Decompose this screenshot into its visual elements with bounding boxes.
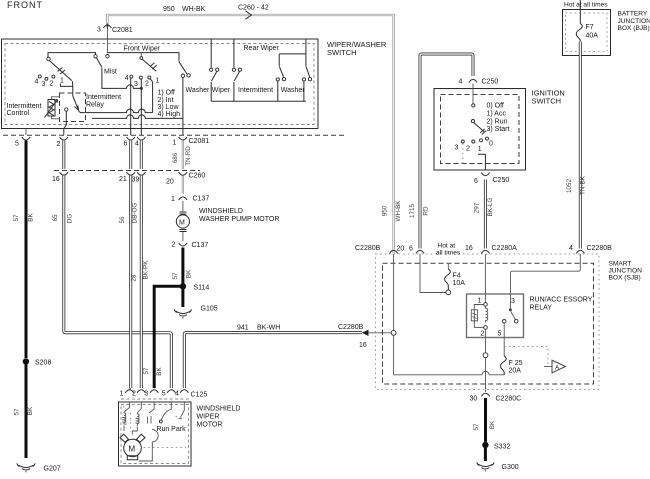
svg-text:57: 57 — [13, 214, 20, 222]
svg-text:4: 4 — [175, 390, 179, 397]
hop over ground wire on F25 horizontal — [482, 371, 489, 374]
svg-text:56: 56 — [119, 216, 126, 224]
wire contact2 down to relay output line — [150, 79, 153, 113]
svg-text:30: 30 — [470, 396, 478, 403]
svg-text:Washer: Washer — [281, 87, 306, 94]
wire 57 BK SJB to S332 (thick) — [484, 398, 487, 442]
front washer switch arm — [179, 62, 187, 74]
splice S208 — [23, 358, 29, 364]
svg-text:S332: S332 — [494, 444, 510, 451]
svg-text:6: 6 — [409, 246, 413, 253]
svg-text:2: 2 — [57, 141, 61, 148]
connector C250 pin 4 chevron — [469, 79, 477, 82]
svg-text:3: 3 — [455, 145, 459, 152]
C2081 pin 2 chevron — [60, 137, 68, 140]
svg-text:57: 57 — [473, 423, 480, 431]
svg-text:2: 2 — [481, 330, 485, 337]
connector C2280B pin16 arrowhead into SJB — [362, 330, 369, 336]
wire 57 BK pin5 to S208 (thick) — [25, 141, 28, 359]
rear washer left arm — [279, 67, 283, 78]
svg-text:MOTOR: MOTOR — [197, 422, 223, 429]
relay pin1 contact — [484, 303, 488, 307]
C125 pin 4 chevron — [180, 390, 188, 393]
park cam arc — [152, 430, 158, 442]
relay pin5 wire down to F25 — [503, 323, 505, 356]
wire park cam to motor — [139, 442, 153, 461]
svg-text:5: 5 — [15, 141, 19, 148]
svg-text:C2280A: C2280A — [492, 245, 518, 252]
svg-text:6: 6 — [474, 178, 478, 185]
svg-text:Intermittent: Intermittent — [86, 94, 121, 101]
svg-text:2: 2 — [466, 146, 470, 153]
svg-text:4: 4 — [459, 78, 463, 85]
svg-text:Run Park: Run Park — [156, 426, 186, 433]
off-page arrow A — [544, 366, 552, 368]
in-line connector C260-42 arrow on top wire — [246, 11, 252, 19]
svg-text:297: 297 — [474, 202, 481, 213]
svg-text:950: 950 — [382, 205, 389, 216]
battery junction box — [563, 10, 611, 56]
svg-text:S208: S208 — [35, 360, 51, 367]
svg-text:C2081: C2081 — [189, 138, 210, 145]
svg-text:2) Int: 2) Int — [158, 97, 174, 104]
wire coils to motor — [124, 426, 137, 435]
svg-text:6: 6 — [124, 141, 128, 148]
smart junction box inner dashed — [383, 263, 594, 384]
svg-text:all times: all times — [436, 249, 461, 256]
svg-text:C260: C260 — [189, 173, 206, 180]
in-line connector C2081 dashed line — [3, 134, 346, 136]
relay fixed contact circle — [65, 108, 68, 111]
ignition position contacts — [461, 140, 464, 143]
svg-text:SWITCH: SWITCH — [532, 97, 562, 106]
svg-text:57: 57 — [172, 272, 179, 280]
switch S2 pivot — [140, 57, 143, 60]
windshield wiper motor box — [119, 402, 192, 466]
svg-text:1: 1 — [156, 78, 160, 85]
wire arrowhead to internal node — [368, 332, 392, 334]
svg-text:4: 4 — [135, 141, 139, 148]
svg-text:C2081: C2081 — [112, 27, 133, 34]
wire rear intermittent out to bus — [233, 82, 235, 101]
C2081 pin 1 chevron — [179, 137, 187, 140]
wiper/washer switch inner dashed box — [5, 44, 314, 125]
BJB inner dotted box — [566, 13, 608, 52]
svg-text:4: 4 — [569, 245, 573, 252]
windshield washer pump motor symbol — [182, 201, 184, 212]
internal node circle (941/950/F25 junction) — [391, 330, 396, 335]
svg-text:3: 3 — [42, 81, 46, 88]
svg-text:16: 16 — [359, 342, 367, 349]
svg-text:4: 4 — [35, 78, 39, 85]
relay coil — [486, 306, 488, 322]
svg-text:21: 21 — [119, 176, 127, 183]
wiper motor breaker contacts — [149, 402, 154, 413]
relay pin3 contact dot — [509, 308, 512, 311]
wire 686 TN-RD washer pin1 to C260-20 — [182, 141, 184, 170]
ignition switch box — [434, 89, 526, 171]
svg-text:RD: RD — [423, 206, 430, 216]
relay coil left loop with marks — [474, 305, 483, 328]
relay armature arm — [511, 311, 516, 319]
svg-text:1: 1 — [478, 297, 482, 304]
svg-text:BK-PK: BK-PK — [143, 260, 150, 280]
connector circle on ground wire — [483, 353, 488, 358]
svg-text:FRONT: FRONT — [7, 0, 43, 10]
svg-text:G300: G300 — [502, 464, 519, 471]
wire 950 WH-BK top run from C2081-3 to corner x=393 — [107, 15, 393, 253]
svg-text:1) Off: 1) Off — [158, 90, 175, 97]
wire rear washer left out — [277, 81, 279, 101]
svg-text:BK: BK — [156, 367, 163, 376]
wire S114 branch to C125-3 (thick) — [154, 286, 183, 388]
svg-text:5: 5 — [498, 330, 502, 337]
connector C2081 pin 3 chevron — [103, 25, 111, 28]
wire rear wiper feed — [210, 40, 212, 68]
svg-text:3: 3 — [144, 390, 148, 397]
svg-text:1052: 1052 — [566, 179, 573, 194]
svg-text:0) Off: 0) Off — [487, 102, 504, 109]
SJB pin 4 chevron C2280B — [576, 250, 584, 253]
svg-text:DB-OG: DB-OG — [132, 203, 139, 224]
splice S114 — [180, 283, 186, 289]
svg-text:Washer: Washer — [186, 87, 211, 94]
svg-text:C250: C250 — [482, 79, 499, 86]
relay coil bottom lead — [52, 116, 60, 119]
svg-text:F4: F4 — [453, 273, 461, 280]
svg-text:RUN/ACC ESSORY: RUN/ACC ESSORY — [530, 297, 593, 304]
wire 1715 RD from SJB pin6 up and over to C250-4 — [420, 54, 473, 249]
intermittent relay dashed box — [60, 93, 86, 122]
svg-text:39: 39 — [132, 177, 140, 184]
svg-text:16: 16 — [465, 245, 473, 252]
front washer contacts — [181, 74, 184, 77]
svg-text:C137: C137 — [192, 242, 209, 249]
wire 941 BK-WH from C125-4 to SJB — [184, 333, 362, 388]
svg-text:F 25: F 25 — [509, 360, 523, 367]
svg-text:WH-BK: WH-BK — [182, 6, 206, 13]
motor bottom terminal — [127, 456, 137, 460]
switch S1 pivot circle — [47, 57, 50, 60]
switch S1 position-1 bracket to relay feed — [60, 84, 72, 87]
wire wash-wipe horizontal to washer wire — [92, 115, 183, 118]
svg-text:1: 1 — [171, 196, 175, 203]
ignition pivot contact — [471, 120, 474, 123]
svg-text:TN-RD: TN-RD — [185, 146, 192, 166]
ground G207 — [17, 463, 35, 472]
C260 pin 21 chevron — [127, 172, 135, 175]
SJB pin 20 chevron C2280B — [389, 250, 397, 253]
svg-text:C125: C125 — [191, 391, 208, 398]
svg-text:WH-BK: WH-BK — [395, 200, 402, 222]
wire C260-20 to C137-1 — [182, 176, 184, 195]
C2081 pin 5 chevron — [22, 137, 30, 140]
park contact stub from pin 4 — [181, 402, 185, 418]
wire contact4 down to pin 6 — [130, 78, 132, 135]
wiper motor M symbol — [124, 439, 142, 457]
wiper motor inner dashed box — [121, 405, 189, 464]
ground G300 — [477, 462, 494, 471]
wire 1052 TN-BK BJB to SJB pin4 — [579, 42, 582, 249]
wire contact3 down to pin 4 — [140, 79, 142, 135]
svg-text:C250: C250 — [493, 177, 510, 184]
svg-text:SWITCH: SWITCH — [327, 48, 357, 57]
svg-text:Wiper: Wiper — [212, 87, 231, 94]
SJB pin 30 chevron C2280C — [481, 393, 489, 396]
svg-text:Rear Wiper: Rear Wiper — [244, 45, 280, 52]
svg-text:3) Low: 3) Low — [158, 104, 180, 111]
svg-text:WIPER: WIPER — [197, 414, 220, 421]
svg-text:WASHER PUMP MOTOR: WASHER PUMP MOTOR — [199, 216, 279, 223]
svg-text:20: 20 — [166, 179, 174, 186]
SJB internal wire pin20 to node — [393, 254, 395, 330]
ignition feed contact — [472, 104, 475, 107]
svg-text:WINDSHIELD: WINDSHIELD — [199, 208, 243, 215]
switch S1 position contacts 4 3 2 — [38, 75, 41, 78]
svg-text:65: 65 — [52, 214, 59, 222]
wire 65 DG from pin2 to C260-16 — [62, 141, 65, 170]
svg-text:2: 2 — [145, 81, 149, 88]
ignition feed wire into box — [472, 84, 474, 104]
C260 pin 20 chevron — [179, 172, 187, 175]
svg-text:BK: BK — [489, 420, 496, 429]
svg-text:Intermittent: Intermittent — [7, 103, 42, 110]
svg-text:C2280C: C2280C — [496, 396, 522, 403]
junction dot mist/wire-28 — [140, 87, 143, 90]
svg-text:BK: BK — [186, 269, 193, 278]
svg-text:G105: G105 — [201, 306, 218, 313]
mist switch pivot circle — [94, 55, 97, 58]
C125 pin 3 chevron — [150, 390, 158, 393]
svg-text:C260 - 42: C260 - 42 — [238, 5, 269, 12]
ignition switch arm with arrowhead — [474, 123, 484, 132]
svg-text:1: 1 — [120, 390, 124, 397]
SJB pin 6 chevron — [416, 250, 424, 253]
svg-text:941: 941 — [237, 325, 249, 332]
svg-text:G207: G207 — [44, 466, 61, 473]
svg-text:4) High: 4) High — [158, 111, 181, 118]
relay coil rect with zigzag — [48, 100, 55, 117]
wire mist arm to wire-28 junction — [102, 68, 141, 88]
wiper motor coil B — [137, 402, 141, 413]
rear washer right arm — [306, 67, 310, 78]
svg-text:C2280B: C2280B — [338, 324, 364, 331]
svg-text:1: 1 — [478, 146, 482, 153]
fuse F7 40A — [576, 24, 582, 42]
BJB feed wire from top — [579, 0, 581, 24]
svg-text:C137: C137 — [193, 196, 210, 203]
switch S2 arm with arrowhead — [142, 59, 156, 71]
svg-text:M: M — [129, 445, 136, 454]
C125 pin 1 chevron — [125, 390, 133, 393]
svg-text:57: 57 — [143, 367, 150, 375]
rear washer feed and bracket — [279, 40, 306, 67]
svg-text:2: 2 — [50, 81, 54, 88]
connector C137 pin 1 chevron — [179, 197, 187, 200]
wire S208 to G207 (thick) — [25, 365, 28, 459]
svg-text:1715: 1715 — [409, 204, 416, 219]
svg-text:Hot at: Hot at — [438, 242, 456, 249]
rear wiper switch contacts — [210, 68, 213, 71]
wire relay output horizontal to contact2 wire — [81, 109, 153, 113]
in-line connector C260 dashed line — [54, 170, 200, 172]
wire relay armature feed — [71, 81, 73, 96]
svg-text:SMART: SMART — [609, 261, 632, 268]
C2081 pin 4 chevron — [137, 137, 145, 140]
mist switch arm — [97, 58, 102, 68]
svg-text:C2280B: C2280B — [587, 245, 613, 252]
svg-text:2: 2 — [132, 390, 136, 397]
motor internal dashed line — [144, 447, 187, 449]
relay pin2 contact — [484, 326, 488, 330]
svg-text:BK: BK — [27, 406, 34, 415]
C125 pin 2 chevron — [137, 390, 145, 393]
wire rear washer right out — [303, 81, 305, 101]
ignition output bracket — [478, 154, 485, 170]
wire 57 BK washer pump to S114 (thick) — [181, 248, 184, 286]
SJB internal wire node down to F25 horizontal — [394, 335, 505, 375]
wire rear intermittent feed — [233, 40, 235, 68]
rear washer right contacts — [302, 78, 305, 81]
svg-text:Relay: Relay — [86, 102, 104, 109]
svg-text:BOX (BJB): BOX (BJB) — [618, 25, 650, 32]
connector C125 dashed line — [121, 398, 191, 400]
rear section bottom bus — [211, 100, 306, 102]
svg-text:Front Wiper: Front Wiper — [124, 45, 161, 52]
relay armature arm with arrowhead — [73, 96, 79, 110]
svg-text:16: 16 — [52, 176, 60, 183]
svg-text:F7: F7 — [586, 24, 594, 31]
switch S2 contacts 4 3 2 1 — [130, 75, 133, 78]
park switch arm from pin 5 — [162, 402, 172, 420]
svg-text:1) Acc: 1) Acc — [487, 110, 507, 117]
connector C250 pin 6 chevron — [481, 173, 489, 176]
svg-text:28: 28 — [131, 274, 138, 282]
svg-text:950: 950 — [163, 6, 175, 13]
svg-text:3: 3 — [97, 27, 101, 34]
connector C137 pin 2 chevron — [179, 243, 187, 246]
svg-text:A: A — [555, 364, 560, 371]
fuse F4 10A — [447, 264, 449, 269]
svg-text:2: 2 — [172, 242, 176, 249]
svg-text:WINDSHIELD: WINDSHIELD — [197, 406, 241, 413]
svg-text:4: 4 — [125, 75, 129, 82]
svg-text:TN-BK: TN-BK — [580, 175, 587, 195]
svg-text:20A: 20A — [509, 368, 522, 375]
svg-text:BK-LG: BK-LG — [487, 197, 494, 216]
ignition start dashed stub — [462, 144, 464, 164]
C2081 pin 6 chevron — [127, 137, 135, 140]
svg-text:Intermittent: Intermittent — [238, 87, 273, 94]
wire S332 to G300 (thick) — [484, 448, 487, 461]
front wiper bus segment B — [108, 53, 179, 62]
run/accessory relay box — [467, 294, 524, 338]
svg-text:5: 5 — [162, 390, 166, 397]
svg-text:C2280B: C2280B — [355, 245, 381, 252]
svg-text:BATTERY: BATTERY — [618, 11, 648, 18]
smart junction box outer dashed — [376, 254, 600, 390]
svg-text:2) Run: 2) Run — [487, 119, 508, 126]
svg-text:M: M — [179, 220, 185, 227]
svg-text:1: 1 — [173, 140, 177, 147]
ground G105 — [174, 309, 191, 318]
svg-text:BOX (SJB): BOX (SJB) — [609, 275, 641, 282]
svg-text:0: 0 — [489, 140, 493, 147]
svg-text:10A: 10A — [453, 280, 466, 287]
svg-text:Hot at all times: Hot at all times — [564, 2, 608, 9]
splice S332 — [482, 442, 488, 448]
svg-text:S114: S114 — [194, 285, 210, 292]
svg-text:JUNCTION: JUNCTION — [618, 18, 650, 25]
wire 65 DG C260 to C125-5 — [64, 176, 172, 389]
dashed coil linkage — [124, 406, 131, 432]
rear washer left contacts — [276, 78, 279, 81]
C260 pin 16 chevron — [60, 172, 68, 175]
wire rear wiper out to bus — [210, 82, 212, 101]
relay coil adjust arrow — [45, 100, 58, 118]
wire 297 BK-LG C250-6 to SJB pin16 — [484, 180, 487, 249]
SJB internal wire pin6 to fuse F4 — [420, 254, 446, 293]
svg-text:DG: DG — [67, 214, 74, 224]
svg-text:3: 3 — [134, 81, 138, 88]
switch S1 arm with arrowhead — [50, 61, 72, 81]
wiper/washer switch outer box — [2, 39, 319, 129]
svg-text:Mist: Mist — [104, 69, 117, 76]
wire 56 DB-OG C2081-6/C260-21 to C125-1 — [130, 141, 131, 389]
fuse F4 bottom node circle — [446, 290, 451, 295]
C260 pin 39 chevron — [137, 172, 145, 175]
svg-text:BK-WH: BK-WH — [257, 325, 280, 332]
SJB pin 16 chevron C2280A — [481, 250, 489, 253]
wire 297 into relay pin 1 — [484, 254, 486, 303]
front wiper bus segment A — [48, 53, 96, 58]
rear intermittent contacts — [232, 68, 235, 71]
svg-text:20: 20 — [397, 246, 405, 253]
svg-text:40A: 40A — [586, 33, 599, 40]
svg-text:JUNCTION: JUNCTION — [609, 268, 643, 275]
fuse F25 20A — [500, 356, 506, 375]
svg-text:3) Start: 3) Start — [487, 126, 510, 133]
mist switch contact circle — [106, 55, 109, 58]
SJB internal wire pin4 to relay pin3 — [511, 254, 581, 308]
relay output to upper horizontal — [79, 111, 82, 113]
relay armature tip contact — [514, 319, 518, 323]
wire relay pin2 to ground connector — [485, 329, 487, 389]
relay coil top lead — [52, 97, 60, 100]
wire from C2081-3 into switch box to mist contact — [106, 29, 108, 54]
ignition switch inner dashed box — [441, 95, 520, 164]
rear intermittent arm — [234, 71, 239, 81]
wiper motor coil A — [124, 402, 130, 412]
rear wiper switch arm — [212, 71, 217, 81]
svg-text:3: 3 — [511, 298, 515, 305]
svg-text:Control: Control — [7, 110, 30, 117]
svg-text:BK: BK — [28, 213, 35, 222]
svg-text:57: 57 — [14, 408, 21, 416]
svg-text:RELAY: RELAY — [530, 305, 553, 312]
dashed branch to circuit A — [504, 347, 548, 365]
motor brush tabs — [120, 434, 145, 442]
relay center contact — [502, 320, 506, 324]
wire S114 to G105 (thick) — [181, 289, 184, 307]
wire front washer to pin 1 — [182, 77, 184, 135]
wire relay contact to pin 2 — [64, 111, 67, 135]
C125 pin 5 chevron — [167, 390, 175, 393]
svg-text:686: 686 — [172, 152, 179, 163]
wire 28 BK-PK C2081-4/C260-39 to C125-2 — [140, 141, 143, 389]
